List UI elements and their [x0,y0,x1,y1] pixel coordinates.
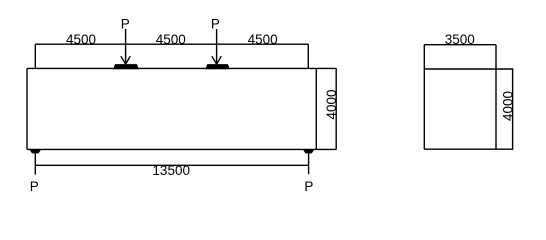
top dimension line (3 x 4500) [35,43,308,45]
svg-text:3500: 3500 [445,32,475,47]
svg-text:P: P [121,16,130,31]
column section right edge with extension [495,45,497,150]
beam elevation left edge [26,68,28,149]
bearing pad under load P2 [205,64,229,69]
load arrow P1 head [121,56,126,64]
svg-text:13500: 13500 [152,163,190,178]
svg-text:4500: 4500 [66,32,96,47]
svg-text:P: P [30,179,39,194]
svg-text:4500: 4500 [248,32,278,47]
load arrow P2 head [212,56,217,64]
load arrow P1 shaft [125,29,127,64]
left support pad [30,150,41,154]
top dimension right extension line [307,44,309,68]
svg-text:4500: 4500 [156,32,186,47]
beam elevation top edge (extends to 4000 dim line) [27,67,336,69]
left reaction leader line [34,153,36,175]
column section left edge with extension [423,45,425,150]
right support pad [303,150,314,154]
column section top edge (extends to 4000 dim line) [424,68,513,70]
4000 dimension line of column section [512,69,514,149]
bearing pad under load P1 [113,64,139,69]
beam elevation right edge [315,68,317,149]
4000 dimension line of beam elevation [335,68,337,149]
svg-text:4000: 4000 [324,89,339,119]
beam elevation bottom edge (extends to 4000 dim line) [27,148,336,150]
top dimension left extension line [34,44,36,68]
svg-text:P: P [304,179,313,194]
svg-text:P: P [211,16,220,31]
bottom dimension line 13500 [35,164,308,166]
3500 dimension line [424,44,496,46]
column section bottom edge (extends to 4000 dim line) [424,148,513,150]
load arrow P2 shaft [216,29,218,64]
svg-text:4000: 4000 [500,91,515,121]
right reaction leader line [308,153,310,174]
